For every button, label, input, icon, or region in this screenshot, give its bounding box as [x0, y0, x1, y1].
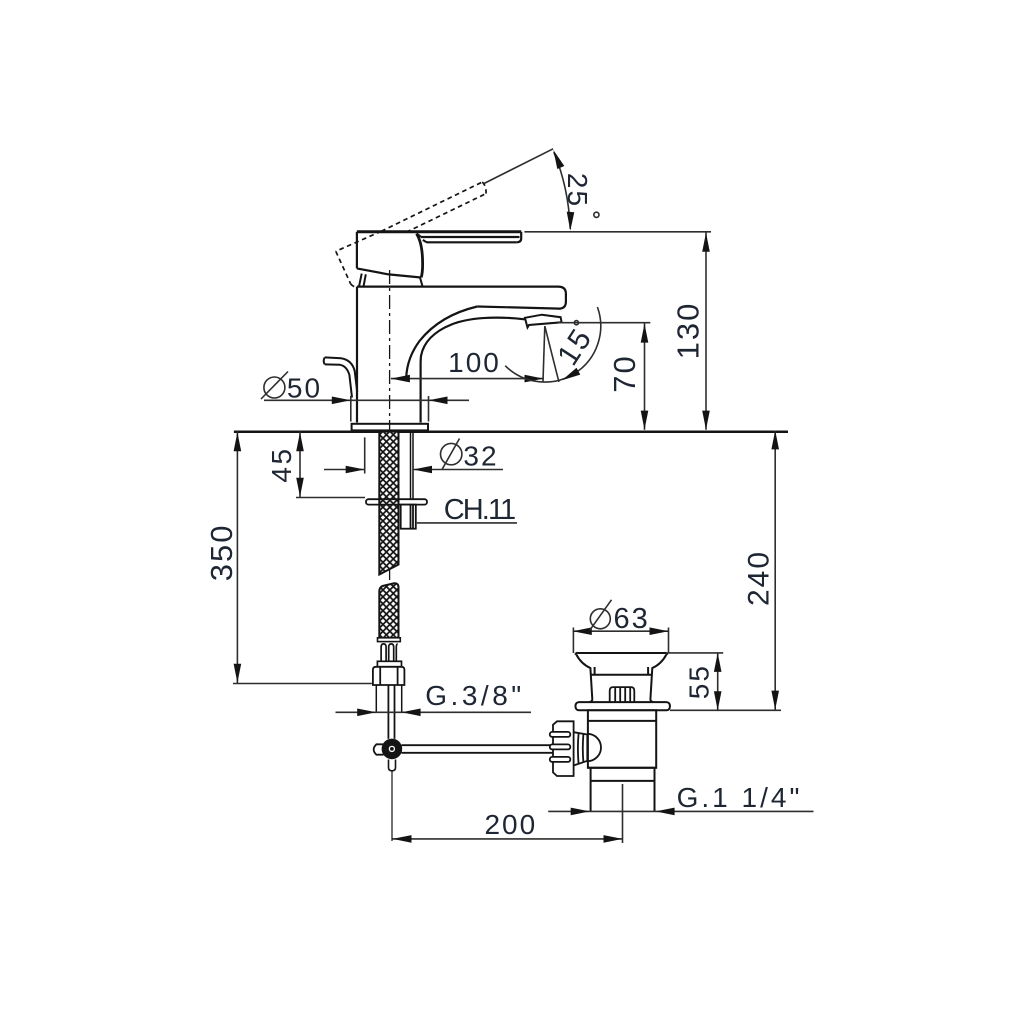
dim 45 [299, 431, 301, 497]
svg-text:200: 200 [484, 809, 537, 840]
pop-up rod hook at rear [324, 357, 358, 397]
label CH.11 [417, 522, 517, 524]
ball joint [382, 739, 403, 760]
drain tailpiece [588, 768, 656, 812]
svg-text:50: 50 [287, 373, 322, 404]
horseshoe washer [366, 499, 427, 504]
dim 70 [644, 323, 646, 430]
faucet handle dashed (raised 25 deg) [336, 182, 486, 287]
drain knurled coupling nut [550, 721, 574, 776]
horizontal linkage rod [402, 745, 554, 753]
dim top reference line [524, 231, 711, 233]
drain coupling cone [574, 732, 588, 765]
dim G 1 1/4 [548, 810, 813, 812]
shank tube walls [411, 432, 414, 499]
svg-text:25: 25 [562, 173, 593, 208]
svg-text:350: 350 [204, 524, 239, 582]
svg-text:CH.11: CH.11 [444, 494, 515, 526]
dim 25deg arc [554, 152, 571, 229]
threaded stub below nut [376, 685, 401, 713]
svg-text:45: 45 [266, 446, 297, 482]
pop-up pull rod vertical [388, 685, 394, 739]
dim 25deg diagonal reference [484, 149, 553, 184]
dim 240 [774, 431, 776, 710]
dim 130 [705, 232, 707, 430]
dim G 3/8 [336, 711, 532, 713]
drain lower body [588, 710, 656, 768]
svg-text:63: 63 [613, 603, 649, 635]
wire countertop line [234, 430, 788, 433]
dim 200 [393, 838, 623, 840]
hose bellows connector [381, 643, 398, 662]
faucet spout housing [357, 287, 566, 423]
dim 350 [236, 431, 238, 683]
neck below handle [359, 274, 423, 287]
CH.11 lock nut [401, 505, 416, 529]
hose collar [377, 661, 401, 667]
dim 55 [717, 653, 719, 710]
svg-text:240: 240 [742, 550, 775, 606]
drain knurled cap [610, 687, 635, 702]
hex nut G 3/8 [373, 667, 405, 685]
dim dia50 [264, 399, 469, 401]
dim 70 extension [558, 322, 650, 324]
braided supply hose upper segment [379, 433, 398, 575]
dim dia32 [324, 469, 365, 471]
svg-text:70: 70 [607, 354, 642, 392]
drain rod boss [587, 734, 601, 761]
svg-text:G.1 1/4": G.1 1/4" [677, 782, 803, 813]
spout under-curve outer [406, 307, 477, 378]
centerline faucet (dash-dot) [389, 270, 391, 580]
svg-text:100: 100 [448, 347, 501, 378]
faucet handle solid outline [357, 232, 521, 278]
aerator tip [525, 315, 562, 328]
svg-text:32: 32 [463, 441, 498, 472]
svg-text:130: 130 [671, 302, 706, 360]
spout under-curve inner / column right edge [421, 318, 525, 423]
drain top plate [576, 702, 670, 710]
rod left stub [374, 744, 384, 754]
dim 100 [391, 378, 544, 380]
braided supply hose lower segment [379, 583, 398, 637]
dim dia63 [573, 630, 669, 632]
base flange [352, 424, 428, 431]
rod lower stub [389, 760, 396, 771]
hose ferrule [378, 638, 401, 642]
rod extension thin line [391, 771, 393, 841]
dim 15deg lines [543, 326, 545, 381]
svg-text:G.3/8": G.3/8" [425, 680, 524, 711]
drain trumpet flange [575, 653, 667, 702]
svg-text:55: 55 [683, 664, 714, 699]
